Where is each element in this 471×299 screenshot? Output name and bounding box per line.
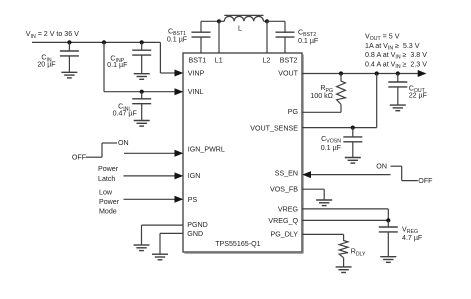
svg-text:VOUT: VOUT xyxy=(278,70,298,78)
svg-text:L2: L2 xyxy=(262,57,270,65)
label CIN 20 uF xyxy=(37,54,56,69)
svg-text:Power: Power xyxy=(98,165,119,173)
node CVOSN junction xyxy=(351,126,355,130)
ground CIN xyxy=(61,72,77,78)
svg-text:ON: ON xyxy=(376,163,387,171)
pin label L1 xyxy=(215,57,223,65)
wire VREG_Q xyxy=(302,219,388,221)
svg-text:Mode: Mode xyxy=(99,208,117,216)
wire switch vertical xyxy=(101,143,103,157)
label ON (SS_EN switch) xyxy=(376,163,387,171)
wire GND xyxy=(160,233,183,253)
svg-text:0.1 µF: 0.1 µF xyxy=(298,37,319,45)
svg-text:VREG: VREG xyxy=(278,205,298,213)
node CINP junction xyxy=(140,40,144,44)
label RDLY xyxy=(351,248,366,258)
svg-text:PG_DLY: PG_DLY xyxy=(271,231,299,239)
svg-text:OFF: OFF xyxy=(418,177,433,185)
label Low Power Mode xyxy=(99,188,120,215)
wire SS_EN xyxy=(302,171,390,178)
node L2 junction xyxy=(265,19,269,23)
wire VINL arrow xyxy=(175,88,184,95)
svg-text:BST1: BST1 xyxy=(189,57,207,65)
node CINL junction xyxy=(140,90,144,94)
wire VINL vertical xyxy=(103,42,105,91)
label ON (IGN_PWRL switch) xyxy=(118,139,129,147)
ground GND xyxy=(152,254,168,260)
wire inductor right stub xyxy=(264,20,268,22)
ground CINL xyxy=(134,121,150,127)
ground CVOSN xyxy=(345,158,361,164)
label OFF (IGN_PWRL switch) xyxy=(72,154,87,162)
svg-text:0.1 µF: 0.1 µF xyxy=(321,144,342,152)
capacitor CVOSN xyxy=(343,128,362,158)
pin label VOS_FB xyxy=(270,186,298,194)
ground CINP xyxy=(134,74,150,80)
svg-text:VINL: VINL xyxy=(188,88,204,96)
pin label BST1 xyxy=(189,57,207,65)
label VIN = 2 V to 36 V xyxy=(26,30,79,40)
svg-text:VOUT_SENSE: VOUT_SENSE xyxy=(250,125,298,133)
pin label GND xyxy=(187,230,203,238)
wire VOUT xyxy=(302,73,418,75)
wire PG_DLY xyxy=(302,234,344,239)
wire PG xyxy=(302,111,341,113)
pin label VREG xyxy=(278,205,298,213)
pin label VREG_Q xyxy=(268,217,298,225)
label COUT 22 uF xyxy=(409,85,428,100)
label CBST1 0.1 uF xyxy=(167,28,188,44)
pin label SS_EN xyxy=(275,169,298,177)
wire L1 vertical xyxy=(218,21,220,53)
label CBST2 0.1 uF xyxy=(298,28,319,45)
wire VOUT_SENSE horizontal xyxy=(302,127,377,129)
svg-text:TPS55165-Q1: TPS55165-Q1 xyxy=(215,240,260,248)
svg-text:PG: PG xyxy=(288,108,298,116)
capacitor CBST2 xyxy=(276,32,295,37)
svg-text:IGN: IGN xyxy=(188,172,201,180)
capacitor CIN xyxy=(60,42,79,72)
pin label VOUT_SENSE xyxy=(250,125,298,133)
node COUT junction xyxy=(396,71,400,75)
node RPG junction xyxy=(339,71,343,75)
wire L2 to BST2 xyxy=(267,20,285,22)
inductor L xyxy=(224,15,263,21)
ground VOS_FB xyxy=(316,200,332,206)
svg-text:IGN_PWRL: IGN_PWRL xyxy=(188,146,225,154)
ground VREG cap xyxy=(380,257,396,263)
wire VINP corner xyxy=(160,42,175,73)
svg-text:Low: Low xyxy=(99,188,113,196)
pin label IGN_PWRL xyxy=(188,146,225,154)
label VREG 4.7 uF xyxy=(402,226,423,242)
pin label VINL xyxy=(188,88,204,96)
resistor RDLY xyxy=(339,240,348,267)
label RPG 100 kOhm xyxy=(310,84,333,100)
wire BST1 to L1 node xyxy=(201,20,219,22)
svg-text:0.1 µF: 0.1 µF xyxy=(107,61,128,69)
svg-text:VREG_Q: VREG_Q xyxy=(268,217,298,225)
pin label L2 xyxy=(262,57,270,65)
wire VIN bus xyxy=(32,41,160,43)
wire VINL horizontal xyxy=(104,91,175,93)
wire SS_EN switch OFF stub xyxy=(402,180,418,182)
wire VOUT arrow xyxy=(418,70,427,77)
wire switch ON stub xyxy=(102,142,117,144)
svg-text:SS_EN: SS_EN xyxy=(275,169,298,177)
svg-text:GND: GND xyxy=(187,230,203,238)
ground COUT xyxy=(390,105,406,111)
svg-text:PGND: PGND xyxy=(187,221,208,229)
pin label BST2 xyxy=(280,57,298,65)
wire PGND xyxy=(142,225,184,245)
node VINL branch junction xyxy=(102,40,106,44)
node L1 junction xyxy=(217,19,221,23)
pin label VINP xyxy=(188,70,205,78)
pin label PG_DLY xyxy=(271,231,299,239)
pin label PG xyxy=(288,108,298,116)
svg-text:OFF: OFF xyxy=(72,154,87,162)
pin label PS xyxy=(188,196,198,204)
wire inductor left stub xyxy=(219,20,224,22)
wire BST1 vertical xyxy=(200,21,202,53)
svg-text:L: L xyxy=(238,25,242,33)
svg-text:22 µF: 22 µF xyxy=(409,92,428,100)
capacitor COUT xyxy=(388,74,407,105)
capacitor CINL xyxy=(132,92,151,120)
wire IGN xyxy=(124,172,184,179)
node VREG junction xyxy=(386,218,390,222)
label L xyxy=(238,25,242,33)
wire VREG xyxy=(302,209,388,221)
label CINP 0.1 uF xyxy=(107,54,128,69)
label CVOSN 0.1 uF xyxy=(321,135,342,152)
pin label IGN xyxy=(188,172,201,180)
resistor RPG xyxy=(337,74,346,113)
label VOUT specs xyxy=(365,33,427,71)
svg-text:4.7 µF: 4.7 µF xyxy=(402,234,423,242)
wire PS xyxy=(124,196,184,203)
IC U1 TPS55165-Q1 body xyxy=(183,53,303,253)
ground PGND xyxy=(134,245,150,251)
ground RDLY xyxy=(336,267,352,273)
svg-text:Latch: Latch xyxy=(98,175,115,183)
node VOUT_SENSE branch junction xyxy=(375,71,379,75)
wire BST2 vertical xyxy=(284,21,286,53)
wire VOS_FB xyxy=(302,189,324,199)
capacitor VREG xyxy=(379,220,398,256)
pin label VOUT xyxy=(278,70,298,78)
svg-text:BST2: BST2 xyxy=(280,57,298,65)
svg-text:0.47 µF: 0.47 µF xyxy=(113,109,138,117)
wire SS_EN switch ON stub xyxy=(391,165,402,167)
wire switch OFF stub xyxy=(86,156,102,158)
wire IGN_PWRL xyxy=(124,150,183,157)
svg-text:Power: Power xyxy=(99,198,120,206)
svg-text:PS: PS xyxy=(188,196,198,204)
wire SS_EN switch vertical xyxy=(401,166,403,180)
node CIN junction xyxy=(67,40,71,44)
svg-text:20 µF: 20 µF xyxy=(37,60,56,68)
capacitor CINP xyxy=(132,42,151,73)
svg-text:ON: ON xyxy=(118,139,129,147)
svg-text:VOS_FB: VOS_FB xyxy=(270,186,298,194)
pin label PGND xyxy=(187,221,208,229)
label OFF (SS_EN switch) xyxy=(418,177,433,185)
svg-text:100 kΩ: 100 kΩ xyxy=(310,92,333,100)
wire L2 vertical xyxy=(266,21,268,53)
wire VINP arrow xyxy=(175,70,184,77)
label CINL 0.47 uF xyxy=(113,103,138,118)
svg-text:0.1 µF: 0.1 µF xyxy=(167,35,188,43)
capacitor CBST1 xyxy=(192,32,211,37)
wire VOUT_SENSE vertical xyxy=(376,74,378,128)
label Power Latch xyxy=(98,165,119,183)
IC part number label TPS55165-Q1 xyxy=(215,240,260,248)
svg-text:VINP: VINP xyxy=(188,70,205,78)
svg-text:L1: L1 xyxy=(215,57,223,65)
